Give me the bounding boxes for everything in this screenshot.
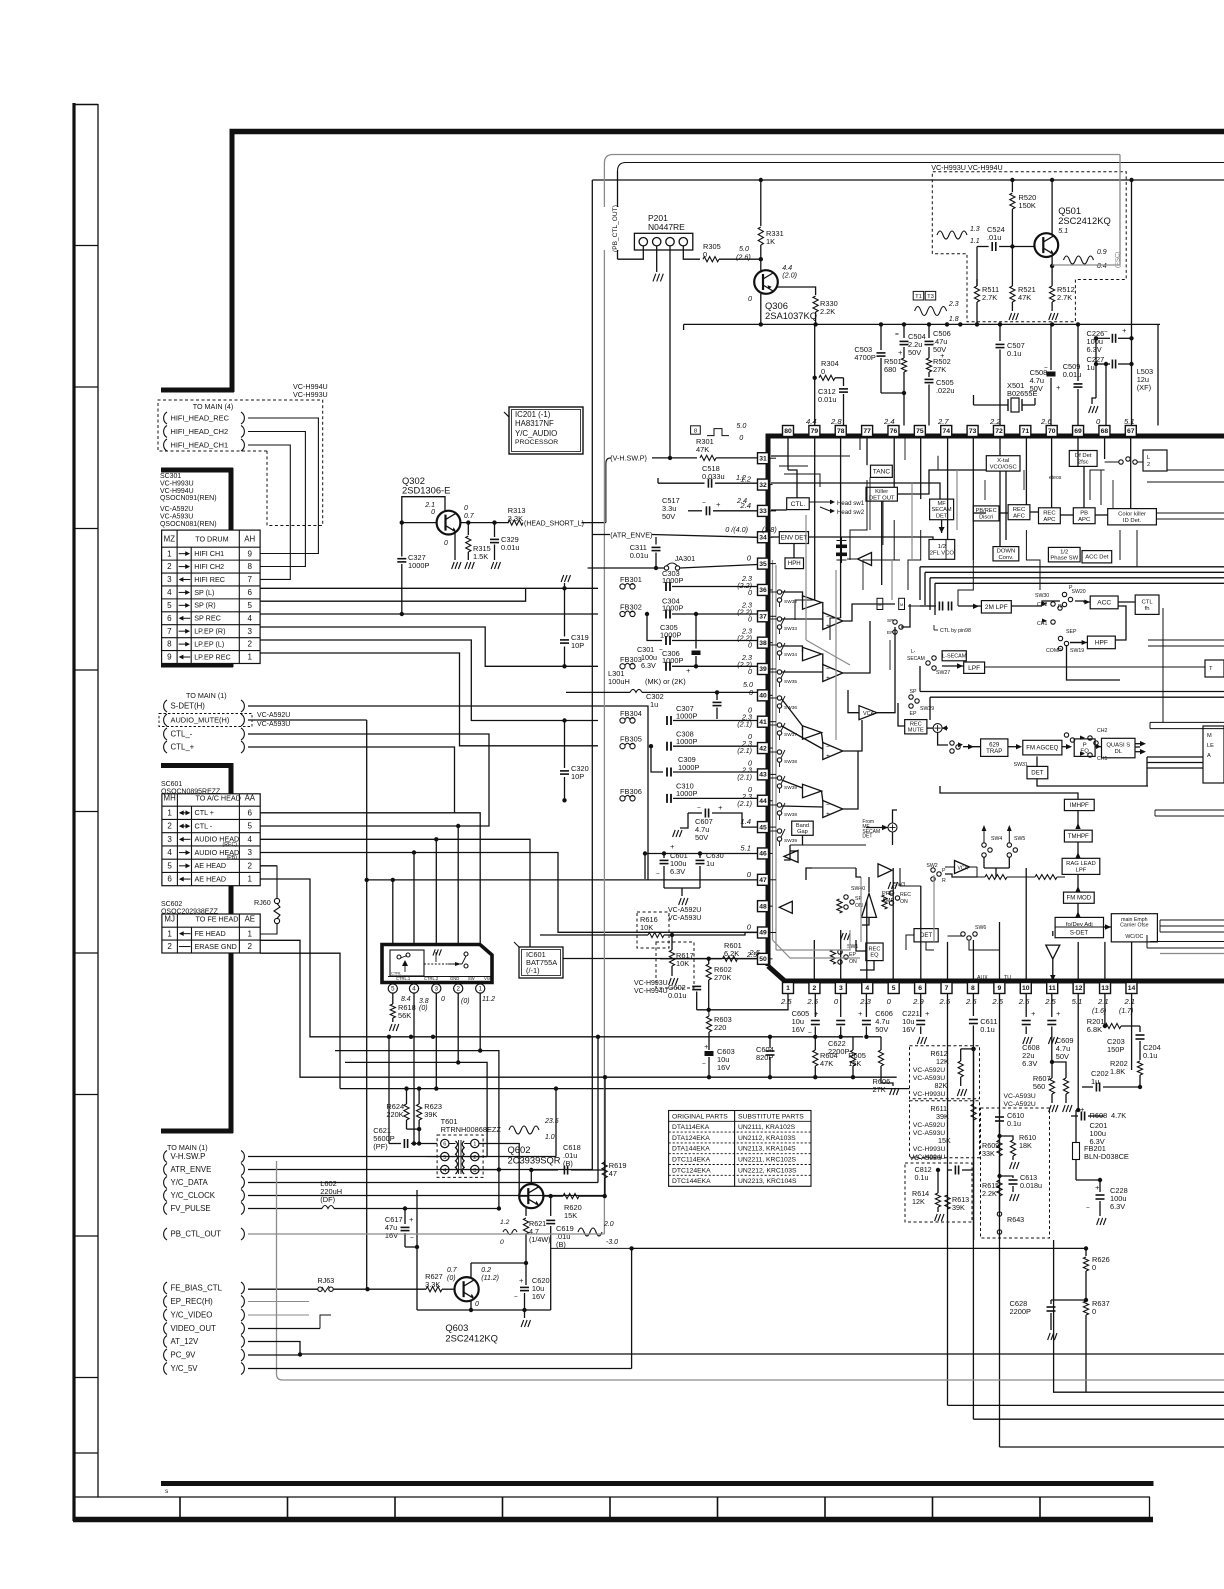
svg-text:0: 0 <box>431 509 435 516</box>
block PB APC <box>1073 508 1095 524</box>
wire mixer2 link <box>892 832 894 845</box>
wire AUDIO_MUTE(H) to IC pin47 <box>248 719 367 721</box>
svg-text:0: 0 <box>748 641 752 650</box>
svg-text:12K: 12K <box>936 1057 949 1066</box>
svg-text:0: 0 <box>887 997 892 1006</box>
capacitor C504 2.2u 50V ecap <box>903 324 905 338</box>
svg-text:4: 4 <box>248 835 253 844</box>
svg-text:6.8K: 6.8K <box>1087 1025 1102 1034</box>
rail y1037 <box>406 1036 863 1038</box>
svg-text:2200P: 2200P <box>828 1047 849 1056</box>
wire LP.EP(R) row to FB303 <box>260 627 598 666</box>
svg-text:0.01u: 0.01u <box>630 551 649 560</box>
svg-text:2: 2 <box>813 985 817 992</box>
svg-text:Gap: Gap <box>797 829 808 835</box>
svg-text:QUASI S: QUASI S <box>1106 743 1130 749</box>
block ACC Det <box>1082 551 1112 563</box>
wire switch column feed <box>768 591 777 593</box>
svg-text:2.7: 2.7 <box>937 417 949 426</box>
svg-text:36: 36 <box>759 587 767 594</box>
connector HIFI_HEAD_CH1 <box>164 439 167 451</box>
svg-text:7: 7 <box>167 627 172 636</box>
wire rec mute to mixer <box>927 727 933 729</box>
svg-text:HIFI_HEAD_CH1: HIFI_HEAD_CH1 <box>171 441 229 450</box>
svg-text:−: − <box>702 500 706 507</box>
svg-text:-3.0: -3.0 <box>606 1239 618 1246</box>
IC201 inner gray bus left <box>772 560 774 940</box>
wire FV_PULSE lower <box>248 1208 322 1210</box>
wire band gap stub <box>802 835 804 845</box>
svg-text:COMP: COMP <box>1046 648 1062 654</box>
svg-text:CTL_+: CTL_+ <box>171 743 195 752</box>
svg-text:CTL: CTL <box>1142 599 1154 605</box>
svg-text:+: + <box>686 666 691 675</box>
svg-text:47K: 47K <box>1018 293 1031 302</box>
wire sw2 link <box>945 874 977 877</box>
svg-text:1.0: 1.0 <box>545 1134 555 1141</box>
resistor R331 1K <box>760 180 762 226</box>
svg-text:SP: SP <box>887 618 893 624</box>
wire tri A out <box>822 603 823 614</box>
svg-text:REC: REC <box>910 721 922 727</box>
svg-text:78: 78 <box>837 428 845 435</box>
svg-text:LP.EP (R): LP.EP (R) <box>194 627 225 636</box>
svg-text:11.2: 11.2 <box>482 996 495 1003</box>
svg-text:R: R <box>942 878 946 884</box>
svg-text:0: 0 <box>475 1301 479 1308</box>
svg-text:FB303: FB303 <box>620 655 642 664</box>
svg-text:3.8: 3.8 <box>419 998 429 1005</box>
rail y1077 <box>384 1076 897 1078</box>
wire Q302 collector loop <box>402 497 445 557</box>
svg-text:41: 41 <box>759 719 767 726</box>
svg-text:2200P: 2200P <box>1010 1307 1031 1316</box>
svg-text:50V: 50V <box>875 1025 888 1034</box>
svg-text:5: 5 <box>247 601 252 610</box>
svg-text:6.3V: 6.3V <box>1087 345 1102 354</box>
svg-text:FM MOD: FM MOD <box>1066 895 1091 902</box>
svg-text:DTA144EKA: DTA144EKA <box>672 1146 710 1153</box>
wire C617 connections <box>404 1209 406 1219</box>
wire imhpf tmhpf chain <box>1077 811 1079 826</box>
IC201 bottom pins 1-14 <box>783 983 794 994</box>
ground Q603 <box>524 1310 526 1318</box>
svg-text:UN2211, KRC102S: UN2211, KRC102S <box>738 1157 797 1164</box>
svg-text:2: 2 <box>473 1155 476 1161</box>
board outline top edge <box>230 129 1224 135</box>
svg-text:L: L <box>1147 455 1150 461</box>
svg-text:eteos: eteos <box>1049 475 1062 481</box>
svg-text:10: 10 <box>1022 985 1030 992</box>
svg-text:X-tal: X-tal <box>997 458 1009 464</box>
resistor R620 15K <box>563 1194 579 1199</box>
svg-text:2.1: 2.1 <box>424 502 435 509</box>
capacitor C320 10P <box>564 721 566 769</box>
svg-text:5.0: 5.0 <box>736 421 746 430</box>
wire FE_BIAS to RJ63 to R627 <box>248 1288 318 1290</box>
svg-text:ID Det.: ID Det. <box>1123 518 1142 524</box>
transistor Q306 2SA1037KQ <box>760 259 762 270</box>
wire SP REC row to FB302 <box>260 613 598 615</box>
svg-text:Y/C_AUDIO: Y/C_AUDIO <box>515 429 557 438</box>
wire Q306 emitter down to bus <box>760 294 762 325</box>
wire LP.EP REC row to FB305 <box>260 653 598 746</box>
svg-text:CTL.: CTL. <box>791 501 806 508</box>
svg-text:M: M <box>1207 733 1212 739</box>
svg-text:(PB): (PB) <box>227 855 238 861</box>
svg-text:TO A/C HEAD: TO A/C HEAD <box>196 794 241 803</box>
svg-text:VCA: VCA <box>958 866 969 872</box>
svg-text:L-SECAM: L-SECAM <box>942 654 967 660</box>
svg-text:EP_REC(H): EP_REC(H) <box>171 1297 214 1306</box>
svg-text:SW38: SW38 <box>784 812 797 818</box>
svg-text:2: 2 <box>457 986 461 993</box>
svg-text:39K: 39K <box>952 1203 965 1212</box>
block L-SECAM <box>942 651 966 661</box>
block cut at right edge top <box>1143 450 1167 471</box>
svg-text:TO FE HEAD: TO FE HEAD <box>196 915 239 924</box>
svg-text:4: 4 <box>247 614 252 623</box>
svg-text:SP (R): SP (R) <box>194 601 215 610</box>
IC601 inner dashed link <box>424 963 462 965</box>
amp triangle right mid <box>878 864 892 877</box>
wire AT_12V lower <box>248 1342 1224 1355</box>
block 2M LPF <box>981 601 1011 613</box>
svg-text:−: − <box>410 1235 414 1242</box>
connector VIDEO_OUT <box>164 1323 167 1335</box>
sine small 1.2 <box>503 1230 517 1235</box>
svg-text:71: 71 <box>1022 428 1030 435</box>
svg-text:MJ: MJ <box>164 915 175 924</box>
wire mixer chain to 629 trap <box>938 733 948 745</box>
svg-text:34: 34 <box>759 534 767 541</box>
svg-text:SW33: SW33 <box>784 626 797 632</box>
svg-text:Y/C_VIDEO: Y/C_VIDEO <box>171 1311 213 1320</box>
svg-text:(2.1): (2.1) <box>737 799 752 808</box>
resistor R520 150K <box>1011 180 1013 192</box>
wire rail 1050 from left <box>335 1050 480 1052</box>
amp down triangle <box>1046 945 1060 959</box>
svg-text:100uH: 100uH <box>608 677 630 686</box>
amp triangle group A <box>803 596 822 610</box>
wire interior verticals to bottom pins <box>813 940 815 981</box>
svg-text:HIFI_HEAD_CH2: HIFI_HEAD_CH2 <box>171 427 229 436</box>
svg-text:0.4: 0.4 <box>1097 263 1107 270</box>
svg-text:32: 32 <box>759 482 767 489</box>
connector FV_PULSE <box>164 1203 167 1215</box>
switch SW20 acc <box>1064 733 1068 737</box>
block CTL fh right edge <box>1135 595 1159 614</box>
wire pin8 into dashed box <box>971 1047 975 1051</box>
wire Q306 collector to R330 <box>777 287 816 295</box>
wire right edge pair y722 <box>1150 721 1224 723</box>
svg-text:2.5: 2.5 <box>1044 997 1056 1006</box>
svg-text:+: + <box>1122 326 1127 335</box>
svg-text:CTL by pin98: CTL by pin98 <box>940 628 971 634</box>
wire right edge pair y941 <box>1150 941 1224 943</box>
svg-text:VC-H994U: VC-H994U <box>634 988 668 995</box>
svg-text:150K: 150K <box>1019 201 1036 210</box>
wire acc node <box>1075 601 1090 602</box>
svg-text:1: 1 <box>247 653 252 662</box>
svg-text:(2.6): (2.6) <box>736 253 751 262</box>
wire gray riser to y1380 <box>277 1161 1224 1380</box>
svg-text:LE: LE <box>1207 743 1214 749</box>
svg-text:2.5: 2.5 <box>746 950 758 959</box>
wire rec eq feeds <box>860 961 874 970</box>
svg-text:10P: 10P <box>571 772 584 781</box>
svg-text:1: 1 <box>248 929 253 938</box>
svg-text:R: R <box>1058 604 1062 610</box>
svg-text:T1: T1 <box>915 294 922 300</box>
resistor R315 1.5K <box>466 520 470 524</box>
svg-text:ATR_ENVE: ATR_ENVE <box>171 1165 212 1174</box>
capacitor C505 .022u <box>925 378 934 380</box>
block T cut right edge <box>1205 660 1224 677</box>
wire sw6 link <box>969 941 1000 950</box>
wire C228 link <box>1076 1180 1100 1185</box>
svg-text:BLN-D038CE: BLN-D038CE <box>1084 1152 1129 1161</box>
wire right edge gray y953 <box>1160 953 1224 955</box>
svg-text:2FL VCO: 2FL VCO <box>930 550 955 556</box>
svg-text:1000P: 1000P <box>676 712 697 721</box>
svg-text:HIFI CH2: HIFI CH2 <box>194 562 224 571</box>
svg-text:UN2112, KRA103S: UN2112, KRA103S <box>738 1135 796 1142</box>
wire Q603 left rail <box>416 1190 418 1310</box>
wire EP_REC lower <box>248 1301 309 1303</box>
svg-text:UN2111, KRA102S: UN2111, KRA102S <box>738 1124 796 1131</box>
svg-text:8: 8 <box>247 562 252 571</box>
wire AUDIO HEAD REC to IC <box>260 839 757 958</box>
connector table SC601 MH TO A/C HEAD AA <box>162 794 260 886</box>
svg-text:LP.EP (L): LP.EP (L) <box>194 640 224 649</box>
svg-text:UN2213, KRC104S: UN2213, KRC104S <box>738 1178 797 1185</box>
svg-text:AUDIO_MUTE(H): AUDIO_MUTE(H) <box>171 716 230 725</box>
dashed box R617 10K <box>656 942 694 988</box>
svg-text:50V: 50V <box>1056 1052 1069 1061</box>
svg-text:68: 68 <box>1101 428 1109 435</box>
wire R637 out <box>1085 1326 1087 1392</box>
svg-text:+: + <box>826 753 830 760</box>
svg-text:SC601: SC601 <box>161 781 182 788</box>
wire SP(R) row <box>260 588 525 601</box>
connector Y/C_VIDEO <box>164 1309 167 1321</box>
svg-text:(B): (B) <box>556 1240 566 1249</box>
svg-text:ON: ON <box>855 903 863 909</box>
wire long rail y324 to right <box>684 323 1160 325</box>
wire Q501 collector up <box>1051 180 1053 235</box>
svg-text:680: 680 <box>884 365 896 374</box>
svg-text:DET OUT: DET OUT <box>869 495 895 501</box>
svg-text:5: 5 <box>167 601 172 610</box>
wire Q302 base <box>402 522 437 524</box>
switch SW27 <box>932 656 936 660</box>
capacitor stack mid IC <box>836 545 847 549</box>
block PB/REC Discri <box>973 506 999 521</box>
svg-text:S-DET: S-DET <box>1070 930 1089 937</box>
svg-text:−: − <box>826 614 830 621</box>
svg-text:0.7: 0.7 <box>464 513 475 520</box>
IC201 left pins 31-50 <box>758 453 769 464</box>
dashed box R616 10K <box>637 912 669 948</box>
connector FE_BIAS_CTL <box>164 1282 167 1294</box>
svg-text:220: 220 <box>714 1023 726 1032</box>
svg-text:1.8K: 1.8K <box>1110 1067 1125 1076</box>
wire HIFI head lines to MZ table <box>248 418 318 554</box>
svg-text:DTA114EKA: DTA114EKA <box>672 1124 710 1131</box>
svg-text:50V: 50V <box>662 512 675 521</box>
svg-text:0: 0 <box>748 588 752 597</box>
wire IC601 pin1 down <box>480 993 499 1209</box>
svg-text:ORIGINAL PARTS: ORIGINAL PARTS <box>672 1113 728 1120</box>
wire pin9 down long <box>999 994 1001 1448</box>
svg-text:R608: R608 <box>1090 1111 1108 1120</box>
svg-text:V-H.SW.P: V-H.SW.P <box>171 1152 206 1161</box>
sine symbol input FSC <box>937 231 967 239</box>
svg-text:UN2113, KRA104S: UN2113, KRA104S <box>738 1146 796 1153</box>
connector AUDIO_MUTE(H) dashed <box>159 714 252 727</box>
capacitor C507 0.1u <box>999 324 1001 341</box>
svg-text:+: + <box>1056 383 1061 392</box>
svg-text:0: 0 <box>1092 1263 1096 1272</box>
svg-text:+: + <box>826 675 830 682</box>
svg-text:0: 0 <box>739 433 743 442</box>
svg-text:0.1u: 0.1u <box>1007 349 1021 358</box>
svg-text:5: 5 <box>167 861 172 870</box>
wires C601 C630 rails <box>645 853 758 855</box>
svg-text:(0): (0) <box>461 998 470 1005</box>
svg-text:(2.0): (2.0) <box>782 271 797 280</box>
wire lower region horiz <box>790 844 866 846</box>
resistor R618 56K <box>392 993 394 1004</box>
svg-text:RAG LEAD: RAG LEAD <box>1066 861 1096 867</box>
svg-text:EP: EP <box>910 711 917 717</box>
svg-text:0: 0 <box>444 540 448 547</box>
svg-text:5.1: 5.1 <box>1124 417 1135 426</box>
svg-text:SW1: SW1 <box>847 944 858 950</box>
ground P201 pin2 <box>656 246 658 272</box>
svg-text:CTRL: CTRL <box>391 971 402 976</box>
wire pin79 vertical <box>814 378 816 426</box>
svg-text:PB_CTL_OUT: PB_CTL_OUT <box>171 1230 222 1239</box>
svg-text:44: 44 <box>759 798 767 805</box>
svg-text:39: 39 <box>759 666 767 673</box>
svg-text:75: 75 <box>916 428 924 435</box>
wire interior mesh 2 <box>788 456 850 470</box>
svg-text:2.2K: 2.2K <box>820 307 835 316</box>
svg-text:2.5: 2.5 <box>991 997 1003 1006</box>
svg-text:Q306: Q306 <box>765 301 788 311</box>
svg-text:(2.1): (2.1) <box>737 772 752 781</box>
svg-text:DTC144EKA: DTC144EKA <box>672 1178 711 1185</box>
svg-text:+: + <box>925 1009 930 1018</box>
svg-text:2.3: 2.3 <box>948 301 959 308</box>
block QUASI S DL <box>1102 738 1136 758</box>
svg-text:2SC2412KQ: 2SC2412KQ <box>1058 216 1111 226</box>
svg-text:APC: APC <box>1043 517 1056 523</box>
svg-text:7: 7 <box>945 985 949 992</box>
svg-text:LPF: LPF <box>968 665 980 672</box>
svg-text:(XF): (XF) <box>1137 383 1151 392</box>
wire pin11 branch <box>1051 1034 1053 1062</box>
svg-text:+: + <box>409 1215 414 1224</box>
svg-text:3: 3 <box>248 848 253 857</box>
capacitor C305 1000P <box>647 614 662 641</box>
svg-text:CTL_-: CTL_- <box>171 730 193 739</box>
svg-text:LP.EP REC: LP.EP REC <box>194 652 231 661</box>
svg-text:(1/4W): (1/4W) <box>529 1235 551 1244</box>
svg-text:1.3: 1.3 <box>970 226 980 233</box>
svg-text:L-: L- <box>911 649 916 655</box>
svg-text:1K: 1K <box>766 237 775 246</box>
svg-text:56K: 56K <box>398 1011 411 1020</box>
svg-text:AE HEAD: AE HEAD <box>195 861 227 870</box>
block X-tal VCO/OSC <box>986 456 1020 471</box>
svg-text:FE_BIAS_CTL: FE_BIAS_CTL <box>171 1284 223 1293</box>
svg-text:+: + <box>1031 1009 1036 1018</box>
wire det lower feeds <box>926 942 934 950</box>
svg-text:(2.8): (2.8) <box>762 525 777 534</box>
svg-text:DTC124EKA: DTC124EKA <box>672 1167 711 1174</box>
svg-text:3: 3 <box>473 1168 476 1174</box>
wire left pin feeders <box>768 457 776 459</box>
wire FE HEAD row <box>260 940 384 1077</box>
svg-text:2.2K: 2.2K <box>982 1189 997 1198</box>
block IMHPF <box>1064 799 1094 810</box>
svg-text:13: 13 <box>1101 985 1109 992</box>
svg-text:2SD1306-E: 2SD1306-E <box>402 486 450 496</box>
svg-text:SW5: SW5 <box>1014 836 1025 842</box>
wire s-det to fm mod row <box>1105 924 1111 929</box>
svg-text:SW34: SW34 <box>784 652 797 658</box>
svg-text:SUBSTITUTE PARTS: SUBSTITUTE PARTS <box>738 1113 804 1120</box>
svg-text:2M LPF: 2M LPF <box>985 604 1008 611</box>
svg-text:REC: REC <box>868 947 880 953</box>
wire V-H.SW.P lower <box>248 1156 556 1158</box>
svg-text:FE HEAD: FE HEAD <box>195 929 226 938</box>
svg-text:2: 2 <box>1147 462 1150 468</box>
svg-text:12K: 12K <box>912 1197 925 1206</box>
svg-text:1u: 1u <box>650 700 658 709</box>
svg-text:RJ63: RJ63 <box>318 1276 335 1285</box>
IC201 label box HA8317NF <box>504 412 512 420</box>
svg-text:R643: R643 <box>1007 1215 1024 1224</box>
svg-text:0.7: 0.7 <box>447 1267 458 1274</box>
svg-text:TRAP: TRAP <box>986 748 1002 755</box>
svg-text:MF: MF <box>938 501 947 507</box>
wire AE HEAD 6 line <box>260 879 406 1037</box>
resistor R604 47K <box>813 1035 817 1039</box>
block HPH <box>785 558 804 569</box>
block DOWN Conv <box>993 547 1019 561</box>
wire T601 pin3 line <box>471 1169 499 1171</box>
svg-text:ACC Det: ACC Det <box>1085 555 1109 561</box>
svg-text:ON: ON <box>900 899 908 905</box>
svg-text:fh: fh <box>1145 606 1150 612</box>
svg-text:Discri: Discri <box>979 514 993 520</box>
svg-text:43: 43 <box>759 772 767 779</box>
svg-text:9: 9 <box>247 549 252 558</box>
svg-text:6: 6 <box>167 875 172 884</box>
sine symbol output <box>1064 256 1094 264</box>
block REC MUTE <box>905 720 927 734</box>
wire SP(L) row to FB301 <box>260 587 598 589</box>
svg-text:74: 74 <box>942 428 950 435</box>
svg-text:5.1: 5.1 <box>740 843 751 852</box>
svg-text:150P: 150P <box>1107 1045 1124 1054</box>
svg-text:SEP: SEP <box>1066 629 1077 635</box>
IC601 inner ground <box>433 949 435 955</box>
